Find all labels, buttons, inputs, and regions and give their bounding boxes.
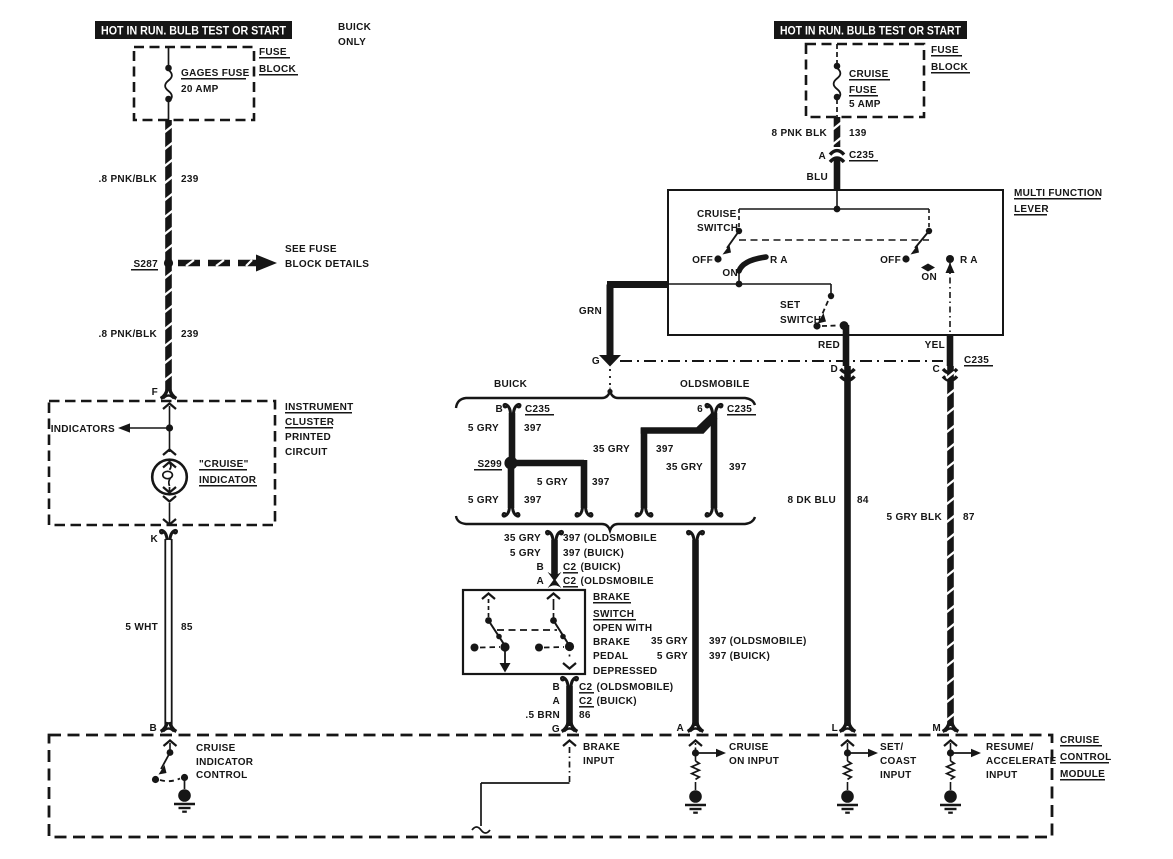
- svg-text:INDICATORS: INDICATORS: [51, 424, 115, 435]
- svg-text:5 AMP: 5 AMP: [849, 99, 881, 110]
- label: CRUISE INDICATOR CONTROL: [196, 743, 254, 781]
- connector: C235 pin B (Buick): [495, 404, 554, 415]
- label: MULTI FUNCTION LEVER: [1014, 188, 1102, 215]
- svg-text:BLU: BLU: [807, 172, 828, 183]
- connector: C235 pin D: [830, 364, 854, 380]
- svg-text:35 GRY: 35 GRY: [651, 636, 688, 647]
- wire: dashed link between brake poles: [497, 629, 557, 631]
- wire: lever internal feed bus: [739, 190, 929, 212]
- node: BRAKE INPUT: [472, 741, 576, 834]
- node: HOT IN RUN, BULB TEST OR START (right feed): [774, 21, 967, 39]
- label: SEE FUSE BLOCK DETAILS: [285, 244, 369, 270]
- wire: 5 GRY 397 (C235-B to S299): [509, 413, 516, 458]
- svg-text:B: B: [149, 723, 157, 734]
- svg-text:FUSE: FUSE: [849, 85, 877, 96]
- label: FUSE BLOCK (right): [931, 45, 970, 73]
- svg-text:LEVER: LEVER: [1014, 204, 1049, 215]
- ground: cruise on input: [685, 790, 706, 813]
- svg-text:8 PNK BLK: 8 PNK BLK: [772, 128, 828, 139]
- wire: cluster internal feed: [163, 404, 176, 429]
- label: OLDSMOBILE: [680, 379, 750, 390]
- svg-text:CLUSTER: CLUSTER: [285, 417, 335, 428]
- svg-text:RED: RED: [818, 340, 840, 351]
- connector: cluster pin K: [150, 530, 176, 545]
- connector: module pin B: [149, 722, 176, 734]
- svg-text:.8 PNK/BLK: .8 PNK/BLK: [98, 329, 157, 340]
- label: SET/COAST INPUT: [880, 742, 917, 781]
- svg-text:C: C: [932, 364, 940, 375]
- node: CRUISE ON INPUT: [689, 741, 726, 762]
- connector line C235 (dash-dot): [620, 360, 943, 362]
- svg-text:139: 139: [849, 128, 867, 139]
- switch: cruise on/off (left): [714, 209, 742, 263]
- svg-text:397: 397: [729, 462, 747, 473]
- svg-text:397: 397: [524, 423, 542, 434]
- svg-text:CRUISE: CRUISE: [196, 743, 236, 754]
- svg-text:F: F: [152, 387, 158, 398]
- svg-text:.5 BRN: .5 BRN: [525, 710, 560, 721]
- splice S299: [474, 456, 518, 470]
- resistor: cruise on input pull: [692, 761, 700, 779]
- ground: cruise indicator control: [174, 789, 195, 812]
- node: SET/COAST INPUT: [841, 741, 878, 762]
- svg-text:BUICK: BUICK: [338, 22, 372, 33]
- instrument cluster printed circuit housing (dashed): [49, 401, 275, 525]
- svg-text:5 WHT: 5 WHT: [125, 622, 158, 633]
- svg-text:A: A: [536, 576, 544, 587]
- svg-text:85: 85: [181, 622, 193, 633]
- node: R A contact (right): [946, 255, 954, 263]
- svg-text:CRUISE: CRUISE: [1060, 735, 1100, 746]
- svg-text:SET/: SET/: [880, 742, 903, 753]
- svg-text:397 (BUICK): 397 (BUICK): [709, 651, 770, 662]
- svg-text:B: B: [536, 562, 544, 573]
- svg-text:DEPRESSED: DEPRESSED: [593, 666, 657, 677]
- connector: module pin A: [676, 722, 703, 734]
- svg-text:BUICK: BUICK: [494, 379, 528, 390]
- connector: C235 pin A: [818, 150, 878, 162]
- brake switch housing: [463, 590, 585, 674]
- svg-text:BLOCK DETAILS: BLOCK DETAILS: [285, 259, 369, 270]
- svg-text:20 AMP: 20 AMP: [181, 84, 219, 95]
- svg-text:ON INPUT: ON INPUT: [729, 756, 779, 767]
- wire: node to lamp: [163, 428, 176, 455]
- wire: 5 WHT 85 (double line): [165, 539, 171, 726]
- svg-text:C2: C2: [579, 696, 593, 707]
- fuse: CRUISE FUSE 5 AMP: [834, 44, 841, 117]
- wire: 35 GRY 397 (right drop): [706, 413, 722, 516]
- wire: 35 GRY 397 (left drop): [636, 413, 717, 516]
- multifunction lever housing: [668, 190, 1003, 335]
- svg-text:CRUISE: CRUISE: [849, 69, 889, 80]
- switch arm: ON pointer (diamond): [921, 264, 937, 284]
- svg-text:CONTROL: CONTROL: [1060, 752, 1112, 763]
- svg-text:6: 6: [697, 404, 703, 415]
- switch: brake switch right pole: [535, 594, 576, 669]
- svg-text:B: B: [552, 682, 560, 693]
- ground: set/coast input: [837, 790, 858, 813]
- svg-text:C235: C235: [727, 404, 752, 415]
- splice S287: [131, 258, 173, 270]
- svg-text:35 GRY: 35 GRY: [593, 444, 630, 455]
- svg-text:35 GRY: 35 GRY: [504, 533, 541, 544]
- svg-text:BRAKE: BRAKE: [593, 637, 630, 648]
- wire: 5 GRY BLK 87 (C235 C to module M): [946, 366, 954, 726]
- arrow: see fuse block details: [178, 255, 277, 272]
- label: BUICK ONLY: [338, 22, 372, 48]
- resistor: resume/accel input pull: [947, 761, 955, 779]
- arrow/wire: to INDICATORS: [51, 423, 170, 435]
- wire: dashed crossbar between switch halves: [739, 239, 929, 241]
- svg-text:GRN: GRN: [579, 306, 602, 317]
- svg-text:397: 397: [656, 444, 674, 455]
- svg-text:BLOCK: BLOCK: [931, 62, 969, 73]
- svg-text:OFF: OFF: [692, 255, 713, 266]
- svg-text:(BUICK): (BUICK): [581, 562, 621, 573]
- label: CRUISE ON INPUT: [729, 742, 779, 767]
- svg-text:C235: C235: [525, 404, 550, 415]
- connector: C235 pin C: [932, 355, 993, 380]
- svg-text:R A: R A: [770, 255, 788, 266]
- lamp: CRUISE indicator bulb: [152, 460, 187, 495]
- svg-text:L: L: [832, 723, 838, 734]
- connector: cluster pin F: [152, 387, 177, 399]
- svg-text:OLDSMOBILE: OLDSMOBILE: [680, 379, 750, 390]
- svg-text:SET: SET: [780, 300, 800, 311]
- switch: cruise indicator control: [152, 741, 188, 790]
- svg-text:C2: C2: [563, 562, 577, 573]
- wire: R A leg (dash-dot) with up arrow: [946, 263, 955, 336]
- svg-text:OPEN WITH: OPEN WITH: [593, 623, 652, 634]
- svg-text:OFF: OFF: [880, 255, 901, 266]
- svg-text:SWITCH: SWITCH: [697, 223, 738, 234]
- svg-text:RESUME/: RESUME/: [986, 742, 1034, 753]
- svg-text:G: G: [552, 724, 560, 735]
- wire: .8 PNK/BLK 239 (S287 to cluster pin F): [164, 266, 172, 390]
- svg-text:5 GRY: 5 GRY: [657, 651, 688, 662]
- resistor: set/coast input pull: [844, 761, 852, 779]
- connector stack: C2 wire into brake switch: [547, 531, 563, 588]
- connector: C235 pin 6 (Oldsmobile): [697, 404, 756, 415]
- switch: brake switch left pole: [471, 594, 511, 673]
- wire: YEL lead (to C235 C): [947, 335, 954, 366]
- svg-text:C2: C2: [563, 576, 577, 587]
- svg-text:GAGES FUSE: GAGES FUSE: [181, 68, 250, 79]
- cruise control module housing (dashed): [49, 735, 1052, 837]
- label: RESUME/ACCELERATE INPUT: [986, 742, 1057, 781]
- svg-text:K: K: [150, 534, 158, 545]
- ground: resume/accel input: [940, 790, 961, 813]
- node: indicators tap: [166, 424, 173, 431]
- svg-text:397: 397: [524, 495, 542, 506]
- svg-text:239: 239: [181, 329, 199, 340]
- svg-text:ACCELERATE: ACCELERATE: [986, 756, 1057, 767]
- svg-text:C235: C235: [849, 150, 874, 161]
- svg-text:CRUISE: CRUISE: [697, 209, 737, 220]
- wire: ON leg to set-switch rail: [668, 268, 831, 287]
- svg-text:A: A: [818, 151, 826, 162]
- svg-text:ON: ON: [722, 268, 738, 279]
- fuse block housing (left, dashed): [134, 47, 254, 120]
- node: RESUME/ACCELERATE INPUT: [944, 741, 981, 762]
- svg-text:(OLDSMOBILE): (OLDSMOBILE): [597, 682, 674, 693]
- svg-text:BLOCK: BLOCK: [259, 64, 297, 75]
- labels: wire codes above brake switch: [504, 533, 657, 544]
- svg-text:B: B: [495, 404, 503, 415]
- svg-text:239: 239: [181, 174, 199, 185]
- label: "CRUISE" INDICATOR: [199, 459, 257, 486]
- svg-text:D: D: [830, 364, 838, 375]
- svg-text:S299: S299: [477, 459, 502, 470]
- label: CRUISE SWITCH: [697, 209, 738, 234]
- svg-text:A: A: [676, 723, 684, 734]
- wire: 35GRY/5GRY 397 (brace to module A): [688, 531, 704, 726]
- wire: RED lead (set switch to C235 D): [843, 325, 850, 366]
- svg-text:HOT IN RUN. BULB TEST OR START: HOT IN RUN. BULB TEST OR START: [780, 26, 961, 38]
- wire: .8 PNK/BLK 239 (fuse to S287): [164, 120, 172, 260]
- node: HOT IN RUN, BULB TEST OR START (left feed): [95, 21, 292, 39]
- svg-text:A: A: [552, 696, 560, 707]
- label: CRUISE CONTROL MODULE: [1060, 735, 1112, 780]
- label: FUSE BLOCK (left): [259, 47, 298, 75]
- label: BRAKE SWITCH OPEN WITH BRAKE PEDAL DEPRESSED: [593, 592, 657, 677]
- fuse block housing (right, dashed): [806, 44, 924, 117]
- switch arm: R A position (heavy arc): [739, 257, 766, 271]
- svg-text:PEDAL: PEDAL: [593, 651, 628, 662]
- svg-text:INPUT: INPUT: [880, 770, 912, 781]
- svg-text:(BUICK): (BUICK): [597, 696, 637, 707]
- bracket: top brace: [456, 391, 755, 408]
- connector: module pin L: [832, 722, 856, 734]
- svg-text:C235: C235: [964, 355, 989, 366]
- wire: 5 GRY 397 (S299 down branch): [503, 468, 519, 516]
- wire: 8 DK BLU 84 (C235 D to module L): [844, 366, 851, 726]
- svg-text:5 GRY: 5 GRY: [468, 423, 499, 434]
- svg-text:M: M: [932, 723, 941, 734]
- svg-text:S287: S287: [133, 259, 158, 270]
- switch: cruise on/off (right): [902, 209, 932, 263]
- svg-text:CRUISE: CRUISE: [729, 742, 769, 753]
- svg-text:INPUT: INPUT: [986, 770, 1018, 781]
- svg-text:INPUT: INPUT: [583, 756, 615, 767]
- svg-text:"CRUISE": "CRUISE": [199, 459, 249, 470]
- connector stack: brake switch to module G: [562, 677, 578, 726]
- svg-text:397 (OLDSMOBILE: 397 (OLDSMOBILE: [563, 533, 657, 544]
- svg-text:INDICATOR: INDICATOR: [196, 757, 254, 768]
- svg-text:HOT IN RUN. BULB TEST OR START: HOT IN RUN. BULB TEST OR START: [101, 26, 286, 38]
- svg-text:CONTROL: CONTROL: [196, 770, 248, 781]
- svg-text:BRAKE: BRAKE: [583, 742, 620, 753]
- svg-text:35 GRY: 35 GRY: [666, 462, 703, 473]
- svg-text:397: 397: [592, 477, 610, 488]
- label: SET SWITCH: [780, 300, 821, 326]
- svg-text:SEE FUSE: SEE FUSE: [285, 244, 337, 255]
- wire: lamp to pin K: [163, 496, 176, 525]
- svg-text:FUSE: FUSE: [259, 47, 287, 58]
- wire: 5 GRY 397 (S299 right branch): [515, 460, 592, 516]
- label: BUICK: [494, 379, 528, 390]
- svg-text:397 (BUICK): 397 (BUICK): [563, 548, 624, 559]
- fuse: GAGES FUSE 20 AMP: [165, 47, 172, 120]
- svg-text:BRAKE: BRAKE: [593, 592, 630, 603]
- label: pin G: [592, 356, 600, 367]
- svg-text:INDICATOR: INDICATOR: [199, 475, 257, 486]
- wire: dash-dot stub below G: [609, 369, 611, 388]
- svg-text:MULTI FUNCTION: MULTI FUNCTION: [1014, 188, 1102, 199]
- switch: set switch: [813, 284, 848, 330]
- svg-text:YEL: YEL: [925, 340, 945, 351]
- svg-text:COAST: COAST: [880, 756, 917, 767]
- svg-text:C2: C2: [579, 682, 593, 693]
- svg-text:INSTRUMENT: INSTRUMENT: [285, 402, 354, 413]
- svg-text:.8 PNK/BLK: .8 PNK/BLK: [98, 174, 157, 185]
- connector: module pin M: [932, 722, 958, 734]
- svg-text:5 GRY: 5 GRY: [537, 477, 568, 488]
- svg-text:G: G: [592, 356, 600, 367]
- wire: 8 PNK BLK 139: [833, 117, 841, 147]
- wire: BLU (C235 to multifunction lever): [834, 159, 841, 190]
- svg-text:84: 84: [857, 495, 869, 506]
- svg-text:397 (OLDSMOBILE): 397 (OLDSMOBILE): [709, 636, 807, 647]
- svg-text:(OLDSMOBILE: (OLDSMOBILE: [581, 576, 654, 587]
- svg-text:FUSE: FUSE: [931, 45, 959, 56]
- svg-text:5 GRY BLK: 5 GRY BLK: [887, 512, 943, 523]
- label: INSTRUMENT CLUSTER PRINTED CIRCUIT: [285, 402, 354, 458]
- connector: module pin G: [552, 722, 577, 735]
- label: BRAKE INPUT: [583, 742, 620, 767]
- svg-text:R A: R A: [960, 255, 978, 266]
- svg-text:MODULE: MODULE: [1060, 769, 1105, 780]
- bracket: bottom brace: [456, 516, 755, 531]
- label: GAGES FUSE 20 AMP: [181, 68, 250, 95]
- svg-text:86: 86: [579, 710, 591, 721]
- svg-text:5 GRY: 5 GRY: [468, 495, 499, 506]
- svg-text:87: 87: [963, 512, 975, 523]
- svg-text:CIRCUIT: CIRCUIT: [285, 447, 328, 458]
- svg-text:ON: ON: [921, 272, 937, 283]
- svg-text:SWITCH: SWITCH: [593, 609, 634, 620]
- svg-text:5 GRY: 5 GRY: [510, 548, 541, 559]
- svg-text:8 DK BLU: 8 DK BLU: [787, 495, 836, 506]
- svg-text:PRINTED: PRINTED: [285, 432, 331, 443]
- svg-text:ONLY: ONLY: [338, 37, 366, 48]
- label: CRUISE FUSE 5 AMP: [849, 69, 890, 110]
- wire: GRN lead (lever to C235 G): [599, 285, 668, 367]
